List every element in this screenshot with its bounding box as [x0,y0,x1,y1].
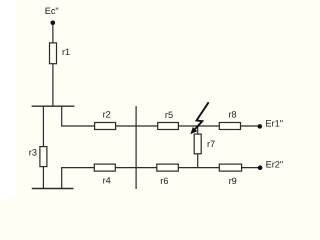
resistor r6 [157,164,179,171]
svg-text:Er1": Er1" [265,118,283,128]
wire r7 to row2 [197,154,199,168]
resistor r3 [40,147,47,167]
terminal dot Er2 [258,165,263,170]
resistor r8 [219,123,240,130]
wire r9 to terminal Er2 [242,167,261,169]
wire r2 to r5 [116,125,158,127]
svg-text:r7: r7 [207,139,215,149]
svg-text:r2: r2 [103,110,111,120]
resistor r1 [50,43,57,64]
wire bar down to row1 [62,106,95,126]
svg-text:r1: r1 [62,47,70,57]
terminal dot Ec [51,21,56,26]
vertical bus [135,106,137,189]
svg-text:Ec": Ec" [45,6,59,16]
resistor r2 [95,123,116,130]
svg-text:r3: r3 [29,148,37,158]
wire r4 to r6 [115,167,157,169]
svg-text:r9: r9 [229,176,237,186]
resistor r5 [158,123,179,130]
wire r6 to r9 [178,167,219,169]
wire bottom bar up to row2 [62,168,95,189]
wire r3 to bottom bar [42,167,44,189]
bottom node bar [32,188,74,190]
svg-text:Er2": Er2" [266,160,284,170]
wire bar to r3 [42,106,44,146]
wire Ec to r1 [52,23,54,43]
svg-text:r5: r5 [165,110,173,120]
wire r1 to node C bar [52,64,54,106]
resistor r4 [94,164,115,171]
svg-text:r8: r8 [229,110,237,120]
lightning fault arrow [195,102,209,129]
white left margin strip [0,0,15,199]
resistor r9 [219,164,241,171]
lightning arrowhead [190,127,197,134]
resistor r7 [194,134,201,154]
wire row1 to r7 [197,126,199,134]
node C bar [32,105,75,107]
terminal dot Er1 [258,124,263,129]
svg-text:r6: r6 [160,176,168,186]
wire r8 to terminal Er1 [241,125,260,127]
svg-text:r4: r4 [103,176,111,186]
wire r5 to r8 [178,125,219,127]
